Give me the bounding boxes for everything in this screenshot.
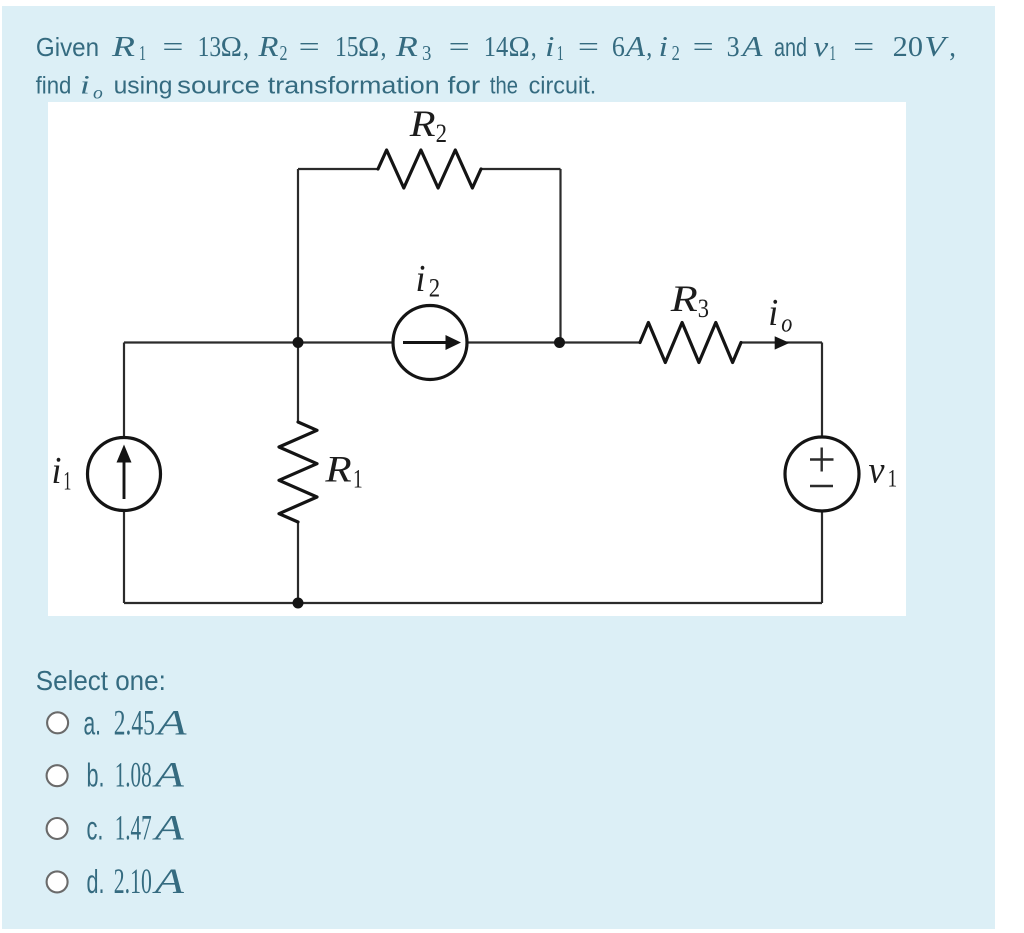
- svg-text:circuit.: circuit.: [529, 72, 597, 99]
- svg-text:3: 3: [422, 41, 431, 65]
- svg-text:3: 3: [698, 294, 709, 323]
- option b radio: [47, 765, 68, 786]
- svg-text:=: =: [693, 31, 714, 63]
- wire left branch lower: [123, 511, 125, 604]
- wire left branch upper: [123, 343, 125, 438]
- node dot B (right T): [554, 337, 565, 348]
- label v1: [869, 450, 898, 493]
- svg-text:o: o: [781, 308, 792, 337]
- svg-text:A: A: [152, 755, 185, 795]
- svg-text:1.08: 1.08: [115, 755, 152, 795]
- svg-text:source: source: [177, 72, 260, 99]
- i2 arrow: [403, 335, 461, 350]
- io arrow head: [775, 336, 790, 349]
- current source i2 circle: [393, 306, 467, 380]
- option c radio: [47, 818, 68, 839]
- label io: [768, 292, 792, 338]
- svg-text:R: R: [409, 104, 436, 145]
- wire top-right vertical: [559, 169, 561, 343]
- svg-text:v: v: [869, 450, 885, 492]
- wire R1 upper: [297, 343, 299, 423]
- svg-text:i: i: [52, 450, 62, 492]
- svg-text:a.: a.: [84, 704, 102, 741]
- svg-text:v: v: [814, 31, 829, 63]
- resistor R2: [378, 150, 481, 188]
- svg-text:2: 2: [672, 41, 680, 65]
- wire top horizontal right of R2: [481, 168, 561, 170]
- svg-text:A: A: [740, 31, 763, 63]
- svg-text:i: i: [416, 258, 426, 300]
- svg-text:b.: b.: [87, 757, 105, 794]
- svg-text:A: A: [152, 807, 185, 847]
- voltage source v1 circle: [785, 437, 859, 511]
- svg-text:2: 2: [280, 41, 288, 65]
- svg-text:R: R: [395, 31, 419, 63]
- question line 2: [36, 70, 597, 102]
- svg-text:i: i: [659, 31, 668, 63]
- svg-text:o: o: [93, 83, 103, 103]
- svg-text:1.47: 1.47: [115, 807, 152, 847]
- wire bottom: [124, 602, 822, 604]
- wire R1 lower: [297, 522, 299, 603]
- question line 1: [36, 31, 956, 65]
- svg-text:R: R: [670, 279, 698, 320]
- label i1: [52, 450, 72, 495]
- svg-text:R: R: [257, 31, 278, 63]
- svg-text:A: A: [624, 31, 645, 63]
- svg-text:13: 13: [198, 31, 222, 63]
- svg-text:2: 2: [436, 119, 447, 148]
- svg-text:i: i: [80, 70, 90, 99]
- svg-text:,: ,: [381, 31, 387, 63]
- svg-text:2: 2: [429, 274, 440, 303]
- svg-text:for: for: [448, 72, 481, 99]
- svg-text:15: 15: [335, 31, 359, 63]
- node dot C (bottom T): [293, 598, 304, 609]
- svg-text:=: =: [299, 31, 320, 63]
- svg-text:1: 1: [557, 41, 564, 65]
- wire R3 to right corner: [741, 341, 822, 343]
- svg-text:i: i: [545, 31, 554, 63]
- node dot A (left T): [293, 337, 304, 348]
- v1 minus sign: [810, 485, 833, 487]
- svg-text:find: find: [36, 72, 72, 99]
- svg-text:A: A: [155, 702, 188, 742]
- svg-text:1: 1: [353, 465, 363, 494]
- svg-text:using: using: [114, 72, 173, 99]
- wire right branch upper: [821, 343, 823, 438]
- svg-text:,: ,: [949, 31, 956, 63]
- svg-text:=: =: [449, 31, 470, 63]
- svg-text:Ω: Ω: [358, 31, 379, 63]
- svg-text:Ω: Ω: [221, 31, 242, 63]
- svg-text:1: 1: [829, 41, 836, 65]
- option a radio: [47, 712, 68, 733]
- wire top horizontal left of R2: [298, 168, 378, 170]
- svg-text:1: 1: [888, 466, 898, 493]
- svg-text:Given: Given: [36, 32, 99, 62]
- svg-text:R: R: [111, 31, 136, 63]
- svg-text:the: the: [490, 72, 518, 99]
- svg-text:R: R: [324, 449, 351, 490]
- svg-text:1: 1: [63, 466, 71, 495]
- svg-text:and: and: [774, 32, 807, 62]
- svg-text:,: ,: [531, 31, 537, 63]
- svg-text:transformation: transformation: [268, 72, 440, 99]
- svg-text:=: =: [578, 31, 599, 63]
- label R2: [409, 104, 447, 148]
- svg-text:i: i: [768, 292, 778, 334]
- wire middle i2 to R3: [467, 341, 641, 343]
- label R3: [670, 279, 709, 323]
- svg-text:3: 3: [727, 31, 740, 63]
- label R1: [324, 449, 362, 493]
- resistor R1: [279, 422, 317, 522]
- v1 plus sign: [810, 448, 834, 487]
- svg-text:Select one:: Select one:: [36, 665, 166, 696]
- svg-text:c.: c.: [87, 809, 104, 846]
- svg-text:2.10: 2.10: [114, 861, 152, 901]
- svg-text:=: =: [853, 31, 874, 63]
- wire top-left vertical: [297, 169, 299, 343]
- svg-text:Ω: Ω: [509, 31, 530, 63]
- svg-text:,: ,: [243, 31, 249, 63]
- svg-text:20: 20: [893, 31, 923, 63]
- svg-text:A: A: [152, 861, 185, 901]
- svg-text:,: ,: [646, 31, 652, 63]
- svg-text:6: 6: [612, 31, 625, 63]
- option d radio: [47, 871, 68, 892]
- svg-text:2.45: 2.45: [114, 702, 155, 742]
- resistor R3: [640, 323, 741, 363]
- svg-text:14: 14: [484, 31, 509, 63]
- label i2: [416, 258, 441, 303]
- svg-text:V: V: [924, 31, 949, 63]
- svg-text:1: 1: [139, 41, 146, 65]
- wire right branch lower: [821, 511, 823, 603]
- current source i1 circle: [88, 438, 161, 511]
- svg-text:=: =: [162, 31, 183, 63]
- svg-text:d.: d.: [87, 863, 105, 900]
- wire middle left: [124, 341, 394, 343]
- i1 arrow: [117, 445, 132, 500]
